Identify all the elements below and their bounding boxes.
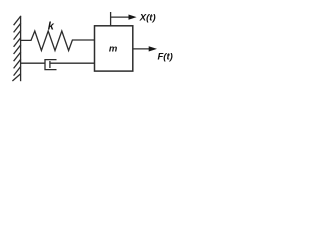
wall hatch 4	[14, 38, 21, 47]
wall hatch 5	[14, 45, 21, 54]
svg-text:k: k	[48, 20, 55, 32]
svg-text:F(t): F(t)	[158, 52, 173, 63]
spring k (zigzag with leads)	[21, 31, 95, 51]
displacement reference post	[110, 12, 112, 26]
F(t) arrowhead	[149, 46, 157, 51]
svg-text:X(t): X(t)	[139, 12, 156, 23]
wall hatch 1	[14, 16, 21, 25]
wall hatch 6	[14, 52, 21, 61]
damper left lead (wall to cylinder)	[21, 62, 45, 64]
wall hatch 3	[14, 30, 21, 39]
X(t) arrow shaft	[111, 16, 130, 18]
F(t) arrow shaft	[133, 48, 149, 50]
wall hatch 2	[14, 23, 21, 32]
mass m block	[95, 26, 133, 71]
X(t) arrowhead	[129, 15, 137, 20]
wall hatch 8	[14, 66, 21, 75]
wall hatch 9	[12, 74, 20, 81]
wall (fixed support)	[20, 16, 22, 81]
damper piston rod to mass	[50, 62, 94, 64]
wall hatch 7	[14, 59, 21, 68]
svg-text:m: m	[109, 43, 118, 54]
damper piston plate	[49, 61, 51, 68]
damper cylinder (cup open to the right)	[45, 60, 57, 70]
